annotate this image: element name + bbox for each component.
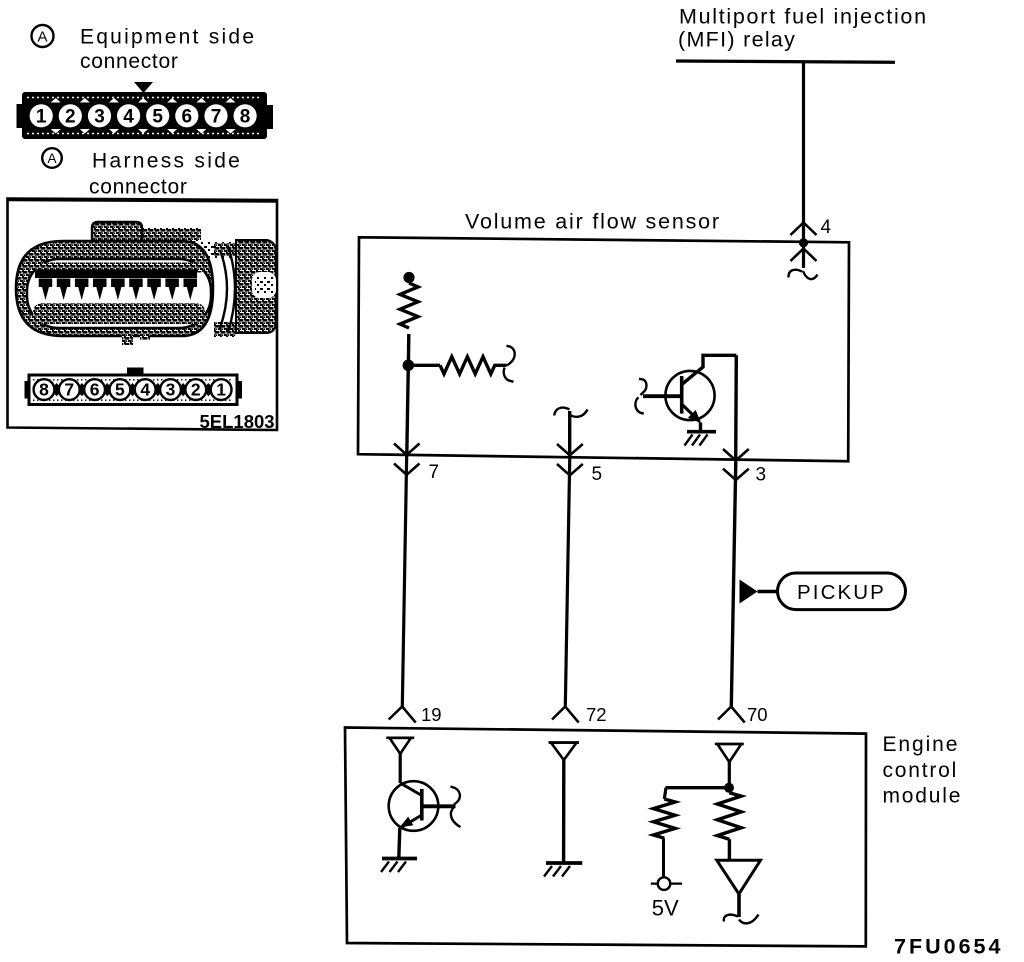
svg-text:7: 7 [429, 462, 440, 483]
text: Multiport fuel injection (MFI) relay [678, 4, 928, 51]
connector 5 chevrons [557, 444, 583, 475]
wire: pin 7 to ECM pin 19 [402, 455, 406, 707]
connector 72 fork [552, 707, 579, 723]
wire: junction to pin 7 [407, 365, 409, 454]
5V supply symbol [651, 877, 682, 890]
svg-text:Equipment side: Equipment side [80, 26, 256, 49]
node: junction dot in ECM [724, 783, 734, 793]
svg-text:6: 6 [90, 380, 100, 400]
resistor R3 (pull-up to 5V) [653, 799, 675, 877]
svg-text:A: A [47, 151, 56, 166]
input triangle at pin 19 [386, 738, 414, 754]
svg-text:2: 2 [65, 106, 76, 127]
wire: relay to VAFS pin 4 [802, 62, 805, 268]
node: dot at top of vertical resistor [403, 272, 414, 283]
wire curl: below comparator [724, 915, 759, 924]
ground: Q1 emitter [685, 432, 717, 446]
pin label 7 [429, 462, 440, 483]
wire curl: Q2 base lead [451, 787, 461, 828]
svg-text:2: 2 [191, 380, 201, 400]
resistor R2 (horizontal, VAFS) with curl [408, 346, 514, 382]
wire: junction to pull-up resistor [664, 788, 729, 799]
junction at pin 4 / box edge [799, 238, 808, 247]
box: Volume air flow sensor [358, 237, 849, 461]
text: Harness side connector [89, 150, 242, 199]
svg-text:1: 1 [216, 380, 226, 400]
transistor Q1 (VAFS) [643, 355, 736, 431]
resistor R1 (vertical, VAFS) [400, 283, 418, 365]
box: Engine control module [345, 728, 866, 947]
svg-text:3: 3 [94, 106, 105, 127]
wire curl: pin 4 stub end [788, 270, 817, 279]
text: Equipment side connector [80, 26, 256, 73]
svg-text:19: 19 [421, 704, 442, 725]
connector strip: equipment side pins 1-8 [17, 82, 274, 139]
MFI relay bus bar [676, 61, 895, 62]
ground: pin 72 [544, 863, 582, 877]
svg-text:8: 8 [240, 106, 251, 127]
svg-text:5EL1803: 5EL1803 [200, 411, 275, 432]
svg-text:7: 7 [211, 106, 222, 127]
connector 19 fork [389, 707, 416, 723]
svg-text:5: 5 [152, 106, 163, 127]
comparator triangle [717, 860, 761, 917]
connector 4 chevrons [791, 223, 817, 262]
svg-text:3: 3 [756, 465, 767, 486]
svg-text:Volume air flow sensor: Volume air flow sensor [465, 210, 721, 234]
svg-text:connector: connector [80, 50, 179, 73]
node: junction dot [403, 360, 415, 372]
connector 70 fork [718, 707, 745, 723]
svg-text:4: 4 [821, 217, 832, 238]
harness connector body illustration [16, 222, 276, 345]
label: circled A (harness side) [42, 148, 62, 168]
svg-text:(MFI) relay: (MFI) relay [678, 28, 796, 52]
input triangle at pin 72 [549, 743, 580, 760]
wire: Q1 collector to pin 3 [734, 355, 738, 460]
wire curl: Q1 base lead [635, 379, 646, 414]
pin label 4 [821, 217, 832, 238]
pin label 70 [747, 704, 768, 725]
pin label 19 [421, 704, 442, 725]
svg-text:3: 3 [166, 380, 176, 400]
svg-text:8: 8 [39, 380, 49, 400]
svg-text:A: A [37, 29, 47, 46]
text: 5V [652, 896, 679, 921]
resistor R4 (to comparator) [717, 793, 741, 861]
ground: Q2 emitter [381, 859, 417, 873]
connector 3 chevrons [723, 449, 749, 480]
wire: pin 19 triangle to Q2 [399, 754, 402, 783]
wire: pin 70 triangle to junction [728, 762, 731, 788]
svg-text:72: 72 [586, 704, 607, 725]
connector strip: harness side pins 8-1 [25, 368, 243, 405]
text: Engine control module [883, 733, 963, 808]
pin label 72 [586, 704, 607, 725]
pickup indicator triangle [740, 580, 778, 604]
svg-text:5V: 5V [652, 896, 679, 921]
wire: pin 3 to ECM pin 70 [731, 461, 736, 707]
svg-text:module: module [883, 785, 963, 808]
svg-text:1: 1 [36, 106, 47, 127]
pin label 5 [592, 464, 603, 485]
svg-text:Multiport fuel injection: Multiport fuel injection [679, 4, 928, 28]
PICKUP capsule label [778, 573, 906, 610]
harness connector figure frame [8, 199, 278, 431]
svg-text:5: 5 [592, 464, 603, 485]
svg-text:6: 6 [182, 106, 193, 127]
transistor Q2 (ECM) [389, 781, 456, 858]
input triangle at pin 70 [715, 744, 744, 762]
text: 7FU0654 [894, 935, 1003, 959]
svg-text:4: 4 [123, 106, 134, 127]
text: Volume air flow sensor [465, 210, 721, 234]
svg-text:4: 4 [140, 380, 150, 400]
svg-text:connector: connector [89, 176, 188, 199]
svg-text:70: 70 [747, 704, 768, 725]
svg-text:7: 7 [64, 380, 74, 400]
text: 5EL1803 [200, 411, 275, 432]
pin label 3 [756, 465, 767, 486]
svg-text:control: control [883, 759, 959, 782]
connector 7 chevrons [394, 444, 420, 475]
svg-text:7FU0654: 7FU0654 [894, 935, 1003, 959]
svg-text:PICKUP: PICKUP [797, 581, 886, 604]
wire: pin 72 to ground [562, 760, 566, 863]
svg-text:5: 5 [115, 380, 125, 400]
wire: pin 5 to ECM pin 72 [565, 455, 570, 706]
svg-text:Harness side: Harness side [92, 150, 242, 173]
svg-text:Engine: Engine [883, 733, 960, 756]
wire curl: pin 5 stub (inside VAFS) [554, 408, 587, 456]
label: circled A (equipment side) [32, 25, 54, 47]
